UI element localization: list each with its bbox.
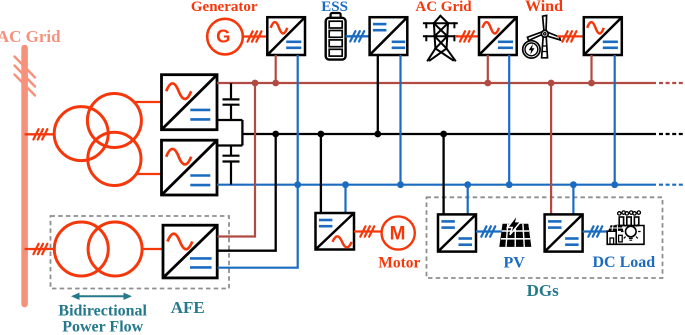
svg-text:AC Grid: AC Grid [0,27,61,46]
wind generator badge with bolt [523,41,540,58]
wire K3 to DC+ bus [275,55,277,83]
converter K3 (generator AC/DC) [267,17,305,55]
wire K2 upper stub [217,144,242,146]
capacitor C2 [223,146,240,185]
wire T2 to AFE converter [142,248,163,250]
wire T1 to converter K2 [136,173,163,175]
wire ESS to converter K4 [346,35,370,37]
converter K8 (PV DC/DC) [438,214,476,251]
converter K7 (motor DC/AC) [316,213,355,250]
transformer T1 (3-winding) [54,94,141,186]
3-phase slashes on T1 wire [33,129,47,139]
wire K5 to DC+ bus [487,55,489,83]
wire DC- bus to PV converter K8 [467,185,469,215]
svg-text:Generator: Generator [191,0,258,15]
wire K8 to PV panel [476,230,501,232]
wire K5 to DC- bus [508,55,510,185]
wind turbine icon [527,15,560,57]
converter K1 (AC/DC, upper grid interface) [162,75,218,130]
transmission tower icon [424,16,457,61]
svg-text:Power Flow: Power Flow [62,319,143,335]
converter K9 (DC load DC/DC) [545,214,583,251]
PV panel icon [499,214,531,247]
wire DC- bus to DC load converter K9 [572,185,574,215]
wire K4 to neutral bus [377,55,379,134]
neutral bus (black) [242,133,656,135]
DC load icon (factory with bulb) [607,211,644,244]
wire T1 to converter K1 [134,101,163,103]
motor M1 circle [382,216,415,249]
wire AFE to DC+ bus [218,83,256,237]
junction dots DC+ bus [252,80,595,87]
DC+ bus (dark red) [217,82,656,84]
svg-text:PV: PV [504,255,526,272]
wire neutral bus to PV converter K8 [442,134,444,214]
wire AC grid bus to transformer T1 [25,133,55,135]
dashed box DGs [427,197,663,278]
converter AFE (AC/DC) [163,225,217,278]
capacitor C1 [223,83,240,120]
wire neutral bus to motor converter K7 [320,134,322,213]
wire K6 to DC- bus [614,55,616,185]
wire G1 to converter K3 [243,35,267,37]
svg-text:DGs: DGs [527,281,560,300]
dashed box AFE [51,216,230,289]
junction dots neutral bus [272,131,447,138]
bidirectional power flow arrow [71,293,132,300]
wire K3 to DC- bus [297,55,299,185]
svg-text:DC Load: DC Load [592,254,655,271]
transformer T2 (two winding) [54,222,142,276]
battery ESS [326,13,346,60]
wire AFE to DC- bus [218,185,298,268]
wire DC- bus to motor converter K7 [344,185,346,213]
svg-text:M: M [390,224,406,245]
svg-text:Bidirectional: Bidirectional [58,303,147,320]
wire K6 to DC+ bus [590,55,592,83]
svg-text:AFE: AFE [171,298,205,317]
wire AC grid bus to transformer T2 [25,248,55,250]
wire K4 to DC- bus [399,55,401,185]
generator G1 circle [207,19,243,55]
converter K2 (AC/DC, lower grid interface) [162,140,218,195]
svg-text:Motor: Motor [378,255,420,272]
converter K5 (AC grid AC/DC) [479,17,517,55]
wire K7 to motor [354,230,382,232]
converter K6 (wind AC/DC) [584,17,622,55]
wire AFE to neutral bus [218,134,276,251]
wire midpoint connector [241,120,243,146]
svg-text:G: G [216,26,230,47]
3-phase slashes on AC grid bus [15,57,36,96]
converter K4 (ESS DC/DC) [370,17,408,55]
wire K9 to DC load [583,230,608,232]
junction dots DC- bus [294,181,618,188]
wire DC+ bus to DC load converter K9 [550,83,552,214]
DC- bus (blue) [217,184,656,186]
wire tower to converter K5 [455,35,479,37]
svg-text:AC Grid: AC Grid [415,0,472,15]
wire wind to converter K6 [557,35,584,37]
wire K1 lower stub [217,119,242,121]
svg-text:Wind: Wind [525,0,563,15]
utility AC grid bus (salmon vertical) [21,48,28,304]
